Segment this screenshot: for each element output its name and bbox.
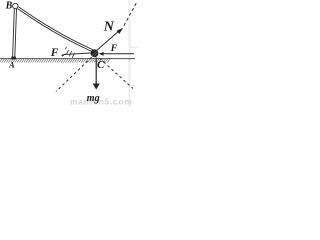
- ball C: [91, 50, 98, 57]
- svg-text:F: F: [110, 44, 118, 54]
- force F left arrow: [61, 53, 90, 57]
- ground: [0, 59, 135, 63]
- dashed extension down-right: [100, 58, 134, 88]
- svg-text:manfen5.com: manfen5.com: [70, 97, 133, 107]
- pole base hinge: [11, 57, 16, 60]
- svg-text:N: N: [103, 19, 115, 34]
- svg-text:C: C: [97, 59, 105, 71]
- pulley at B: [13, 3, 18, 8]
- faint table border vertical line: [129, 0, 131, 107]
- svg-text:mg: mg: [87, 93, 100, 104]
- force F right arrow: [99, 52, 134, 56]
- rod BC: [18, 7, 94, 52]
- svg-text:F: F: [50, 47, 59, 59]
- svg-text:B: B: [5, 1, 13, 12]
- weight mg arrow: [93, 57, 100, 89]
- angle hatch marks at rod contact: [65, 47, 74, 58]
- pole AB: [13, 9, 17, 58]
- dashed extension of N line: [124, 3, 137, 26]
- svg-text:A: A: [8, 60, 15, 70]
- force N arrow: [97, 28, 124, 51]
- dashed extension down-left: [56, 57, 92, 91]
- faint table border horizontal line: [130, 47, 138, 49]
